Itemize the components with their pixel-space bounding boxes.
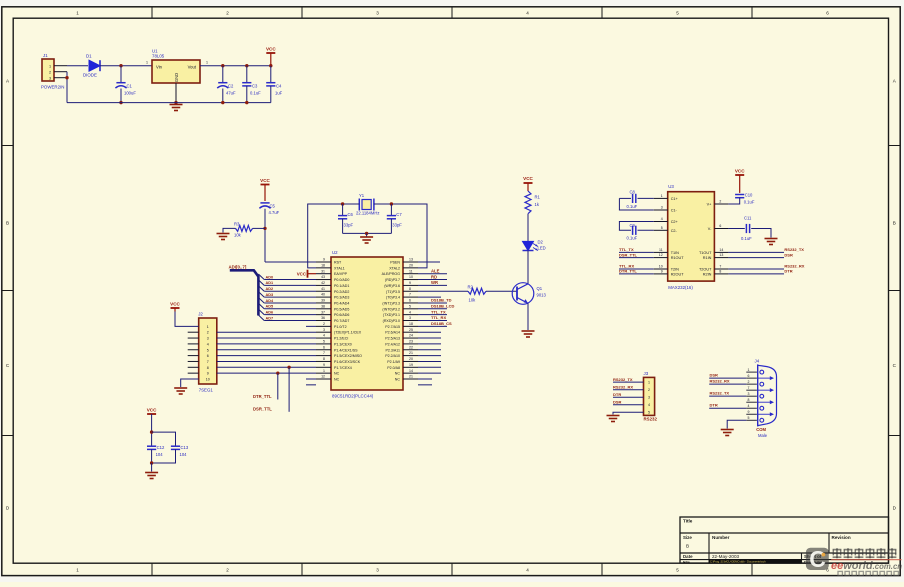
NC stubs left xyxy=(306,379,316,385)
svg-text:2: 2 xyxy=(648,388,650,392)
svg-text:AD7: AD7 xyxy=(266,316,274,320)
svg-text:RD: RD xyxy=(431,274,437,279)
ground symbol J4 xyxy=(721,430,734,436)
svg-text:7SEG1: 7SEG1 xyxy=(199,388,214,393)
P1.0 stub left xyxy=(306,325,316,327)
svg-text:AD6: AD6 xyxy=(266,310,274,314)
svg-text:J2: J2 xyxy=(198,312,203,317)
svg-text:R3: R3 xyxy=(234,222,240,227)
svg-text:VCC: VCC xyxy=(170,302,180,307)
svg-text:DTR: DTR xyxy=(613,392,621,397)
svg-text:41: 41 xyxy=(321,287,325,291)
svg-text:C5: C5 xyxy=(270,204,276,209)
svg-text:(INT0)P3.2: (INT0)P3.2 xyxy=(382,307,400,311)
svg-text:C4: C4 xyxy=(276,84,282,89)
svg-text:4: 4 xyxy=(526,10,529,15)
connector J2 body xyxy=(198,312,217,385)
connector J1 xyxy=(42,53,54,81)
junction regulator gnd xyxy=(174,101,177,104)
svg-text:0.1uF: 0.1uF xyxy=(250,91,261,96)
capacitor C10 0.1uF xyxy=(735,193,755,205)
svg-text:D1: D1 xyxy=(86,54,92,59)
svg-text:7: 7 xyxy=(207,360,209,364)
svg-text:P2.2/A10: P2.2/A10 xyxy=(385,354,400,358)
J2 left stub pins 2-9 xyxy=(188,332,199,373)
svg-text:10: 10 xyxy=(659,265,663,269)
svg-text:33pF: 33pF xyxy=(344,223,354,228)
svg-text:6: 6 xyxy=(409,299,411,303)
svg-text:DS18B_LCD: DS18B_LCD xyxy=(431,304,454,309)
junction C2 top xyxy=(221,64,224,67)
power VCC symbol V+ xyxy=(735,169,745,193)
wire PSEN stub right xyxy=(418,261,440,263)
svg-text:eeworld.com.cn: eeworld.com.cn xyxy=(831,560,902,572)
J4 pins xyxy=(746,368,774,422)
svg-text:VCC: VCC xyxy=(147,408,157,413)
svg-text:VCC: VCC xyxy=(297,272,307,277)
svg-text:38: 38 xyxy=(321,304,325,308)
svg-text:23: 23 xyxy=(409,340,413,344)
svg-text:3: 3 xyxy=(661,206,663,210)
svg-text:J3: J3 xyxy=(644,371,649,376)
svg-text:R2IN: R2IN xyxy=(703,272,712,276)
svg-text:3: 3 xyxy=(376,567,379,572)
svg-text:2: 2 xyxy=(49,70,51,74)
svg-text:C: C xyxy=(809,546,826,572)
svg-text:Y1: Y1 xyxy=(359,193,365,198)
wire C1 tap down xyxy=(120,66,122,83)
svg-text:P2.7/A15: P2.7/A15 xyxy=(385,325,400,329)
wire J3 pin5 to ground xyxy=(613,412,644,414)
svg-text:4: 4 xyxy=(323,334,325,338)
svg-text:0.1uF: 0.1uF xyxy=(627,204,638,209)
wire C1 to ground rail xyxy=(120,89,122,103)
svg-text:DSR_TTL: DSR_TTL xyxy=(619,252,638,257)
svg-text:100uF: 100uF xyxy=(124,91,136,96)
IC U3 MAX232 body xyxy=(668,184,715,281)
svg-text:LED: LED xyxy=(538,246,546,251)
wire R3 to reset node xyxy=(253,227,265,229)
svg-text:6: 6 xyxy=(719,224,721,228)
svg-text:78L05: 78L05 xyxy=(152,54,165,59)
svg-text:RS232_TX: RS232_TX xyxy=(613,377,633,382)
wire LED to collector xyxy=(527,251,529,285)
svg-text:20: 20 xyxy=(409,357,413,361)
svg-text:COM: COM xyxy=(756,427,766,432)
svg-text:AD2: AD2 xyxy=(266,287,274,291)
svg-text:6: 6 xyxy=(748,374,750,378)
wire C5 to RST node xyxy=(264,209,266,262)
capacitor C5 4.7uF xyxy=(259,203,279,215)
svg-text:2: 2 xyxy=(719,200,721,204)
svg-text:5: 5 xyxy=(323,340,325,344)
svg-text:DTR_TTL: DTR_TTL xyxy=(253,394,272,399)
svg-text:(RD)P3.7: (RD)P3.7 xyxy=(385,278,400,282)
svg-text:7: 7 xyxy=(323,351,325,355)
svg-text:8: 8 xyxy=(323,357,325,361)
column numbers 1-6 top xyxy=(76,10,829,15)
ground rail bottom xyxy=(67,102,271,104)
svg-text:43: 43 xyxy=(321,275,325,279)
svg-text:4: 4 xyxy=(648,403,650,407)
power VCC symbol decoupling xyxy=(147,408,157,447)
svg-text:11: 11 xyxy=(409,269,413,273)
junction C3 top xyxy=(245,64,248,67)
svg-text:12: 12 xyxy=(659,253,663,257)
svg-text:22: 22 xyxy=(409,345,413,349)
connector J4 DB9 shell xyxy=(755,359,777,427)
svg-text:P0.1/AD1: P0.1/AD1 xyxy=(334,284,349,288)
capacitor C1 100uF xyxy=(115,83,136,96)
svg-text:V+: V+ xyxy=(707,203,713,207)
svg-text:6: 6 xyxy=(826,10,829,15)
svg-text:8: 8 xyxy=(748,398,750,402)
svg-text:P0.3/AD3: P0.3/AD3 xyxy=(334,296,349,300)
svg-text:C12: C12 xyxy=(157,445,165,450)
svg-text:AD3: AD3 xyxy=(266,293,274,297)
title block outline xyxy=(680,517,889,563)
J4 wires with net labels xyxy=(709,373,746,409)
svg-text:7: 7 xyxy=(719,265,721,269)
svg-text:U2: U2 xyxy=(332,250,338,255)
junction C6 top xyxy=(341,202,344,205)
MCU U2 89C51 body xyxy=(331,250,403,390)
svg-text:C2+: C2+ xyxy=(671,220,679,224)
svg-text:J4: J4 xyxy=(755,359,760,364)
svg-text:4.7uF: 4.7uF xyxy=(269,210,280,215)
junction C7 top xyxy=(390,202,393,205)
svg-text:1: 1 xyxy=(748,368,750,372)
wire caps bottom rail xyxy=(343,232,392,234)
wire U1 output rail xyxy=(200,61,271,66)
wire C7 bottom xyxy=(390,219,392,234)
svg-text:VCC: VCC xyxy=(266,47,276,52)
svg-text:2: 2 xyxy=(323,322,325,326)
svg-text:NC: NC xyxy=(395,372,401,376)
wires P3/serial with net labels xyxy=(418,298,454,327)
svg-text:2: 2 xyxy=(226,10,229,15)
regulator ground pin wire xyxy=(175,83,177,103)
svg-text:1: 1 xyxy=(76,10,79,15)
svg-text:C3: C3 xyxy=(252,84,258,89)
svg-text:P0.0/AD0: P0.0/AD0 xyxy=(334,278,349,282)
svg-text:1: 1 xyxy=(146,61,148,65)
svg-text:RS232_RX: RS232_RX xyxy=(710,379,730,384)
svg-text:(T0)P3.4: (T0)P3.4 xyxy=(386,296,400,300)
svg-text:C:\Prog..51\MCU-DEMO.ddb - Doc: C:\Prog..51\MCU-DEMO.ddb - Documents\sch xyxy=(710,560,766,564)
pin stubs J1 xyxy=(54,66,67,78)
svg-text:T1OUT: T1OUT xyxy=(699,251,712,255)
svg-text:TTL_RX: TTL_RX xyxy=(431,315,446,320)
power VCC symbol top xyxy=(266,47,276,66)
svg-text:T2OUT: T2OUT xyxy=(699,268,712,272)
wire RST to MCU xyxy=(265,261,316,263)
capacitor C6 33pF xyxy=(338,212,354,228)
capacitor C2 47uF xyxy=(217,83,236,96)
junction decoupling top xyxy=(150,430,153,433)
svg-text:9: 9 xyxy=(323,258,325,262)
svg-text:B: B xyxy=(686,544,689,549)
svg-text:7: 7 xyxy=(748,386,750,390)
junction C3 bottom xyxy=(245,101,248,104)
wire J1 pins2-3 down to ground rail xyxy=(66,72,68,103)
row letters A-D left xyxy=(6,79,10,511)
svg-text:AD1: AD1 xyxy=(266,281,274,285)
svg-text:39: 39 xyxy=(321,299,325,303)
svg-text:P1.6/CEX3/SCK: P1.6/CEX3/SCK xyxy=(334,360,361,364)
J3 wires with net labels xyxy=(613,377,644,405)
svg-text:GND: GND xyxy=(174,73,179,82)
svg-text:40: 40 xyxy=(321,293,325,297)
svg-text:19: 19 xyxy=(409,363,413,367)
svg-text:5: 5 xyxy=(748,416,750,420)
wire ALE with net label xyxy=(418,268,447,273)
wire R2 to base xyxy=(486,290,517,292)
capacitor C13 104 xyxy=(171,445,189,457)
top/bottom column tick marks xyxy=(152,7,752,575)
wire C6 drop xyxy=(342,204,344,216)
svg-text:P2.4/A12: P2.4/A12 xyxy=(385,342,400,346)
svg-text:XTAL2: XTAL2 xyxy=(389,266,400,270)
svg-text:9: 9 xyxy=(207,372,209,376)
capacitor C12 104 xyxy=(147,445,165,457)
wire diode to regulator xyxy=(100,61,152,66)
svg-text:5: 5 xyxy=(676,10,679,15)
wire C11 to ground xyxy=(751,229,771,238)
svg-text:1: 1 xyxy=(323,369,325,373)
svg-text:47uF: 47uF xyxy=(226,91,236,96)
svg-text:R1OUT: R1OUT xyxy=(671,256,685,260)
bus ADI[0..7] xyxy=(230,270,259,315)
svg-text:RST: RST xyxy=(334,261,342,265)
svg-text:P1.2/ECI: P1.2/ECI xyxy=(334,337,348,341)
svg-text:VCC: VCC xyxy=(735,169,745,174)
svg-text:WR: WR xyxy=(431,280,438,285)
svg-text:13: 13 xyxy=(409,258,413,262)
svg-text:C7: C7 xyxy=(396,212,402,217)
svg-text:DSR: DSR xyxy=(613,400,622,405)
svg-text:DTR: DTR xyxy=(784,269,792,274)
svg-text:1: 1 xyxy=(207,325,209,329)
svg-text:0.1uF: 0.1uF xyxy=(741,236,752,241)
svg-text:DSR: DSR xyxy=(710,373,719,378)
wire C10 to V+ pin xyxy=(728,198,739,204)
svg-text:24: 24 xyxy=(409,334,413,338)
svg-text:4: 4 xyxy=(526,567,529,572)
svg-text:12: 12 xyxy=(321,375,325,379)
svg-text:4: 4 xyxy=(661,217,663,221)
svg-text:(T2EX)P1.1/CEX: (T2EX)P1.1/CEX xyxy=(334,331,362,335)
MCU U2 pins xyxy=(316,258,418,382)
svg-text:2: 2 xyxy=(207,331,209,335)
svg-text:14: 14 xyxy=(719,248,723,252)
capacitor C8 0.1uF loop C1+/C1- xyxy=(619,190,653,211)
svg-text:1: 1 xyxy=(648,381,650,385)
svg-text:MAX232(16): MAX232(16) xyxy=(668,285,693,290)
svg-text:C8: C8 xyxy=(630,190,636,195)
svg-text:POWER2IN: POWER2IN xyxy=(41,85,64,90)
file path highlighted row xyxy=(709,559,802,563)
svg-text:C10: C10 xyxy=(745,193,753,198)
svg-text:14: 14 xyxy=(409,369,413,373)
svg-text:Vout: Vout xyxy=(188,65,197,70)
ground symbol J2 xyxy=(174,388,187,394)
svg-text:P2.3/A11: P2.3/A11 xyxy=(385,348,400,352)
U3 left serial wires with net labels xyxy=(619,247,654,274)
wire RD with net label xyxy=(418,274,447,279)
wire P3.4 stub xyxy=(418,296,441,298)
svg-text:DTR: DTR xyxy=(710,403,718,408)
svg-text:8: 8 xyxy=(719,269,721,273)
title block texts xyxy=(683,519,851,565)
svg-text:B: B xyxy=(893,221,896,226)
resistor R1 1k xyxy=(525,191,541,214)
svg-text:R1IN: R1IN xyxy=(703,256,712,260)
junction VCC node xyxy=(269,64,272,67)
svg-text:P0.4/AD4: P0.4/AD4 xyxy=(334,301,349,305)
svg-text:R1: R1 xyxy=(535,195,541,200)
junction DSR_TTL tap xyxy=(287,366,290,369)
wire R1 to LED xyxy=(527,214,529,242)
wire WR with net label xyxy=(418,280,447,285)
wire decoupling bottom rail xyxy=(152,449,176,463)
svg-text:XTAL1: XTAL1 xyxy=(334,266,345,270)
svg-text:21: 21 xyxy=(409,375,413,379)
svg-text:5: 5 xyxy=(661,226,663,230)
svg-text:7: 7 xyxy=(409,293,411,297)
svg-text:Vin: Vin xyxy=(156,65,163,70)
svg-text:C2-: C2- xyxy=(671,229,678,233)
U3 right RS232 wires with net labels xyxy=(728,247,804,274)
svg-text:1: 1 xyxy=(206,61,208,65)
svg-text:DSR_TTL: DSR_TTL xyxy=(253,406,272,411)
svg-text:NC: NC xyxy=(334,378,340,382)
ground symbol crystal xyxy=(360,233,373,243)
svg-text:C1+: C1+ xyxy=(671,197,679,201)
junction C1 tap xyxy=(119,64,122,67)
svg-text:C13: C13 xyxy=(181,445,189,450)
svg-text:18: 18 xyxy=(321,263,325,267)
svg-text:22-May-2003: 22-May-2003 xyxy=(712,554,740,559)
svg-text:Size: Size xyxy=(683,535,692,540)
svg-text:(RXD)P3.0: (RXD)P3.0 xyxy=(383,319,400,323)
junction C1 bottom xyxy=(119,101,122,104)
svg-text:4: 4 xyxy=(207,342,209,346)
junction C2 bottom xyxy=(221,101,224,104)
svg-text:C2: C2 xyxy=(228,84,234,89)
transistor Q1 xyxy=(512,283,546,305)
svg-text:File: File xyxy=(683,559,691,564)
svg-text:2: 2 xyxy=(226,567,229,572)
ground symbol J3 xyxy=(607,416,620,422)
svg-text:3: 3 xyxy=(748,392,750,396)
svg-text:R2OUT: R2OUT xyxy=(671,272,685,276)
svg-text:6: 6 xyxy=(323,345,325,349)
wire P3.5 to R2 xyxy=(418,290,468,292)
junction reset node xyxy=(263,227,266,230)
svg-text:22.1184MHz: 22.1184MHz xyxy=(356,211,379,216)
svg-text:0.1uF: 0.1uF xyxy=(627,236,638,241)
svg-text:13: 13 xyxy=(719,253,723,257)
svg-text:1: 1 xyxy=(76,567,79,572)
svg-text:DS18B_TD: DS18B_TD xyxy=(431,298,452,303)
junction crystal gnd xyxy=(365,232,368,235)
wire C6 bottom xyxy=(342,219,344,234)
svg-text:C11: C11 xyxy=(744,216,752,221)
svg-text:11: 11 xyxy=(659,248,663,252)
svg-text:AD0: AD0 xyxy=(266,275,274,279)
wire crystal left to XTAL1 xyxy=(308,204,360,268)
power VCC symbol J2 xyxy=(170,302,180,312)
svg-text:0.1uF: 0.1uF xyxy=(744,199,755,204)
svg-text:1: 1 xyxy=(661,194,663,198)
svg-text:37: 37 xyxy=(321,310,325,314)
side row tick marks xyxy=(2,146,900,436)
svg-text:33pF: 33pF xyxy=(392,223,402,228)
svg-text:C1-: C1- xyxy=(671,209,678,213)
svg-text:NC: NC xyxy=(334,372,340,376)
svg-text:4: 4 xyxy=(409,310,411,314)
svg-text:1: 1 xyxy=(49,64,51,68)
svg-text:9013: 9013 xyxy=(537,293,547,298)
svg-text:8: 8 xyxy=(207,366,209,370)
capacitor C3 0.1uF xyxy=(242,83,261,96)
wires J2 pins2-9 to MCU P1 xyxy=(217,332,316,373)
svg-text:P2.1/A9: P2.1/A9 xyxy=(387,360,400,364)
NC stubs right xyxy=(418,379,432,385)
svg-text:9: 9 xyxy=(409,281,411,285)
svg-text:T2IN: T2IN xyxy=(671,268,679,272)
wire C2 drop xyxy=(222,66,224,83)
ground symbol reset xyxy=(217,234,230,240)
svg-text:C9: C9 xyxy=(630,223,636,228)
svg-text:RS232: RS232 xyxy=(644,417,658,422)
svg-text:P1.7/CEX4: P1.7/CEX4 xyxy=(334,366,352,370)
junction decoupling bottom xyxy=(150,461,153,464)
svg-text:5: 5 xyxy=(409,304,411,308)
svg-text:104: 104 xyxy=(156,452,164,457)
svg-text:10: 10 xyxy=(206,378,210,382)
wire drop to DSR_TTL label xyxy=(253,367,289,412)
svg-text:Revision: Revision xyxy=(832,535,851,540)
svg-text:B: B xyxy=(6,221,9,226)
svg-text:DSR: DSR xyxy=(784,252,793,257)
connector J3 body xyxy=(644,371,655,415)
wire V- to C11 xyxy=(728,228,744,230)
wire J2 pin1 to VCC xyxy=(175,312,199,327)
svg-text:U3: U3 xyxy=(668,184,674,189)
wire J2 pin10 to ground xyxy=(181,379,199,387)
svg-text:89C51RD2(PLCC44): 89C51RD2(PLCC44) xyxy=(332,394,374,399)
svg-text:3: 3 xyxy=(648,396,650,400)
svg-text:9: 9 xyxy=(323,363,325,367)
diode D1 xyxy=(83,54,100,78)
wire drop to DTR_TTL label xyxy=(253,373,278,399)
column numbers 1-6 bottom xyxy=(76,567,829,572)
svg-text:ALE: ALE xyxy=(431,268,440,273)
svg-text:EA/VPP: EA/VPP xyxy=(334,272,348,276)
power VCC symbol reset xyxy=(260,178,270,201)
svg-text:1uF: 1uF xyxy=(275,91,283,96)
svg-text:Q1: Q1 xyxy=(537,286,543,291)
svg-text:(INT1)P3.3: (INT1)P3.3 xyxy=(382,301,400,305)
crystal Y1 xyxy=(356,193,379,216)
svg-text:P1.5/CEX2/MISO: P1.5/CEX2/MISO xyxy=(334,354,362,358)
svg-text:DS18B_CS: DS18B_CS xyxy=(431,321,452,326)
svg-text:6: 6 xyxy=(207,354,209,358)
svg-text:31: 31 xyxy=(321,269,325,273)
ground symbol Q1 xyxy=(522,331,535,337)
